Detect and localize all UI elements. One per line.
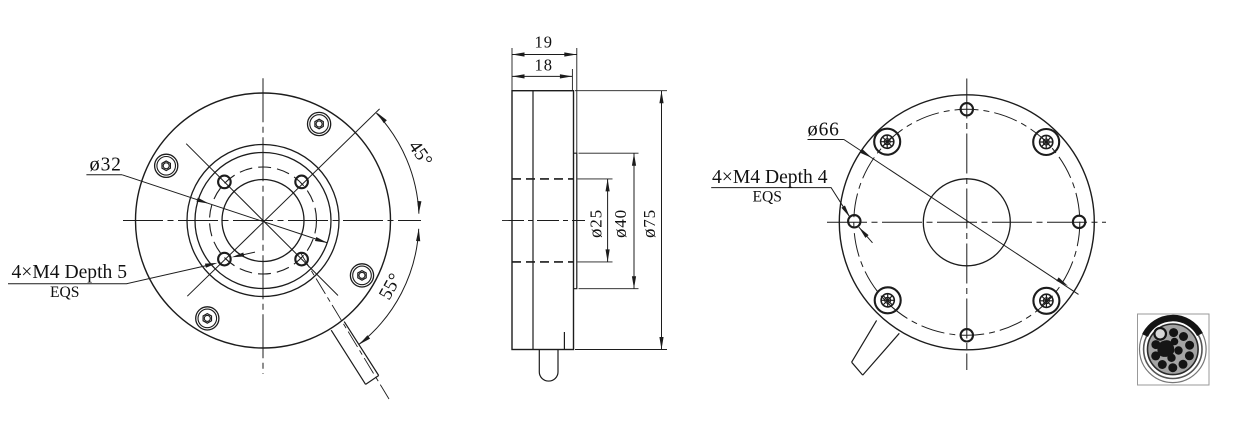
connector face disc xyxy=(1148,324,1199,375)
left view bolt circle ∅32 (dashed) xyxy=(210,167,317,274)
connector pin ring xyxy=(1151,328,1194,372)
side view cable stub xyxy=(539,350,558,382)
dia40 arrows xyxy=(632,153,636,166)
svg-text:EQS: EQS xyxy=(753,189,782,206)
right screw NE xyxy=(1033,129,1059,155)
dia75 arrows xyxy=(659,91,663,104)
large screw hole bottom-left (socket head) xyxy=(196,307,219,330)
dim 19 arrows xyxy=(512,52,525,56)
dia40 dim line xyxy=(633,153,635,289)
svg-text:55°: 55° xyxy=(375,270,406,303)
right callout arrow (pointing down-right at W hole) xyxy=(841,206,851,219)
dia66 label underline xyxy=(808,139,844,141)
dim 18 extension line xyxy=(571,69,573,91)
small hole NE (M4) xyxy=(295,176,308,189)
dia32 arrow outer xyxy=(315,237,328,245)
right screw SE xyxy=(1033,288,1059,314)
dia25 extension lines xyxy=(578,179,613,262)
right screw SW xyxy=(875,287,901,313)
4xM4 depth4 callout leader xyxy=(711,188,850,218)
dia25 arrows xyxy=(606,179,610,192)
dia25 dim line xyxy=(607,179,609,262)
svg-text:ø40: ø40 xyxy=(610,209,631,238)
svg-text:18: 18 xyxy=(535,56,554,75)
side view hidden bore line top (dashed) xyxy=(512,178,574,180)
side view inner face line xyxy=(532,91,534,350)
side view cable boss edge line xyxy=(563,332,565,350)
small hole NW (M4) xyxy=(218,176,231,189)
dia75 dim line xyxy=(661,91,663,350)
connector top black arc xyxy=(1145,318,1200,335)
right view outer circle xyxy=(839,95,1094,350)
dimension arc 45deg xyxy=(376,113,419,214)
right view vertical centerline xyxy=(966,79,968,371)
right callout opposing arrow (pointing up-left) xyxy=(857,226,868,238)
dia66 arrow lower xyxy=(1056,277,1069,287)
connector center blob xyxy=(1157,340,1174,357)
left view hub circle ∅40 xyxy=(195,153,331,289)
dia32 label underline xyxy=(86,174,122,176)
large screw hole right (socket head) xyxy=(350,264,373,287)
dim 19 extension lines xyxy=(512,48,577,153)
small hole SE (M4) xyxy=(295,253,308,266)
right screw NW xyxy=(874,129,900,155)
connector keyway xyxy=(1154,328,1166,340)
dia66 dimension line xyxy=(844,140,1079,295)
svg-text:ø75: ø75 xyxy=(639,209,660,238)
left view vertical centerline xyxy=(262,78,264,374)
left view NW-SE diagonal centerline xyxy=(186,144,338,296)
svg-text:4×M4 Depth 4: 4×M4 Depth 4 xyxy=(712,167,828,188)
large screw hole top (socket head) xyxy=(308,112,331,135)
svg-text:19: 19 xyxy=(535,33,554,52)
left view NE-SW diagonal centerline xyxy=(187,109,379,296)
side view horizontal centerline xyxy=(502,220,585,222)
dim 18 line xyxy=(512,75,572,77)
connector inner pins xyxy=(1162,341,1170,349)
large screw hole left-top (socket head) xyxy=(155,154,178,177)
dim 18 arrows xyxy=(512,74,525,78)
small hole SW (M4) xyxy=(218,253,231,266)
dia32 arrow inner xyxy=(196,198,209,206)
dia75 extension lines xyxy=(575,91,667,350)
dia66 arrow upper xyxy=(860,149,873,159)
right small hole S (M4) xyxy=(961,329,973,341)
side view body rectangle xyxy=(512,91,574,350)
arrow 45 arc upper xyxy=(375,111,387,123)
right view horizontal centerline xyxy=(827,221,1106,223)
dia32 dimension line with leader xyxy=(122,175,327,243)
dia40 extension lines xyxy=(579,153,639,289)
connector square border xyxy=(1138,314,1210,385)
right view center bore circle xyxy=(923,179,1010,266)
dim 19 line xyxy=(512,54,577,56)
svg-text:ø66: ø66 xyxy=(808,119,840,141)
right small hole E (M4) xyxy=(1073,216,1085,228)
arrow 55 arc lower xyxy=(358,335,370,346)
arrow 55 arc upper xyxy=(416,228,421,241)
arrow 45 arc lower xyxy=(417,201,422,214)
side view hidden bore line bottom (dashed) xyxy=(512,261,574,263)
right cable gland xyxy=(852,320,900,375)
left view outer circle (body ∅75) xyxy=(136,93,391,348)
callout opposing arrow (pointing left) xyxy=(231,252,244,259)
4xM4 depth5 callout leader xyxy=(8,264,214,284)
dimension arc 55deg xyxy=(359,229,419,344)
svg-text:ø32: ø32 xyxy=(90,154,122,176)
svg-text:4×M4 Depth 5: 4×M4 Depth 5 xyxy=(12,262,128,283)
left view flange circle ∅45 xyxy=(187,145,339,297)
connector outer ring xyxy=(1140,316,1207,383)
right small hole N (M4) xyxy=(961,103,973,115)
cable gland left view xyxy=(331,322,379,385)
svg-text:EQS: EQS xyxy=(50,284,79,301)
right view bolt circle ∅66 (dash-dot) xyxy=(854,109,1080,335)
callout arrow at SW hole (pointing right) xyxy=(205,261,218,268)
connector inner ring xyxy=(1144,320,1202,378)
connector icon xyxy=(1138,314,1210,385)
svg-text:ø25: ø25 xyxy=(586,209,607,238)
left view horizontal centerline xyxy=(123,220,421,222)
right small hole W (M4) xyxy=(848,215,860,227)
cable centerline left view xyxy=(300,252,389,399)
right callout opposing arrow tail xyxy=(859,227,873,243)
left view bore circle ∅25 xyxy=(222,180,304,262)
callout opposing arrow tail xyxy=(235,252,255,257)
side view hub strip xyxy=(574,153,577,289)
